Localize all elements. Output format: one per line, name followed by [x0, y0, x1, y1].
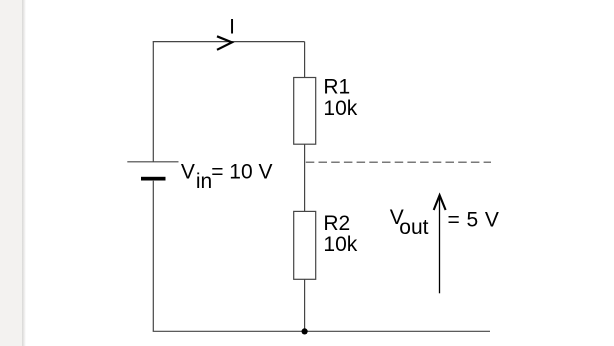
svg-text:= 5 V: = 5 V [448, 208, 500, 231]
svg-text:R1: R1 [323, 75, 350, 98]
svg-text:V: V [181, 161, 195, 184]
svg-text:10k: 10k [323, 97, 357, 120]
svg-text:in: in [196, 170, 212, 193]
svg-text:R2: R2 [323, 212, 350, 235]
svg-text:10k: 10k [323, 233, 357, 256]
svg-text:out: out [399, 216, 428, 239]
svg-text:= 10 V: = 10 V [211, 161, 272, 184]
svg-text:I: I [229, 15, 235, 38]
